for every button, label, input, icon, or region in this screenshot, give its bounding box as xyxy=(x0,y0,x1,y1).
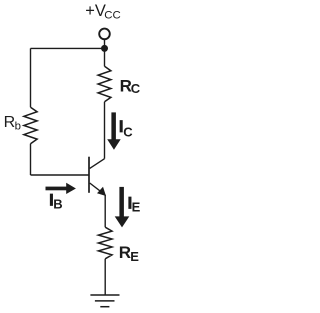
svg-text:R: R xyxy=(119,243,131,262)
junction dot xyxy=(101,45,108,52)
wire top horizontal xyxy=(31,47,105,49)
ground xyxy=(90,295,119,307)
label IE xyxy=(128,194,141,214)
svg-text:C: C xyxy=(123,125,133,140)
resistor Rb xyxy=(24,107,37,144)
current arrow IC xyxy=(107,112,121,149)
wire left vertical to Rb xyxy=(30,48,32,107)
svg-text:E: E xyxy=(130,249,139,264)
wire RE to ground xyxy=(104,259,106,295)
resistor RC xyxy=(98,66,111,102)
wire emitter to RE xyxy=(104,195,106,227)
wire base horizontal xyxy=(31,174,90,176)
wire circle to junction xyxy=(104,40,106,49)
label RC xyxy=(120,76,141,96)
svg-text:CC: CC xyxy=(104,10,120,22)
current arrow IE xyxy=(115,187,130,228)
transistor Q1 emitter arrowhead xyxy=(97,187,106,196)
svg-text:b: b xyxy=(15,121,21,133)
svg-text:B: B xyxy=(53,196,62,211)
node +VCC label xyxy=(85,2,121,22)
resistor RE xyxy=(98,227,112,259)
transistor Q1 emitter lead xyxy=(90,183,106,195)
transistor Q1 base bar xyxy=(88,157,90,193)
wire RC bottom to collector xyxy=(104,102,106,159)
transistor Q1 collector lead xyxy=(90,159,105,169)
svg-text:C: C xyxy=(131,81,141,96)
label IC xyxy=(119,118,133,140)
VCC terminal (open circle) xyxy=(99,29,110,40)
svg-text:R: R xyxy=(4,114,16,131)
wire Rb bottom to base line xyxy=(30,144,32,175)
svg-text:+V: +V xyxy=(85,2,106,20)
svg-text:E: E xyxy=(132,200,141,215)
label IB xyxy=(49,192,62,212)
label Rb xyxy=(4,114,21,132)
wire junction dot to RC xyxy=(104,48,106,66)
label RE xyxy=(119,243,140,264)
current arrow IB xyxy=(46,183,76,194)
